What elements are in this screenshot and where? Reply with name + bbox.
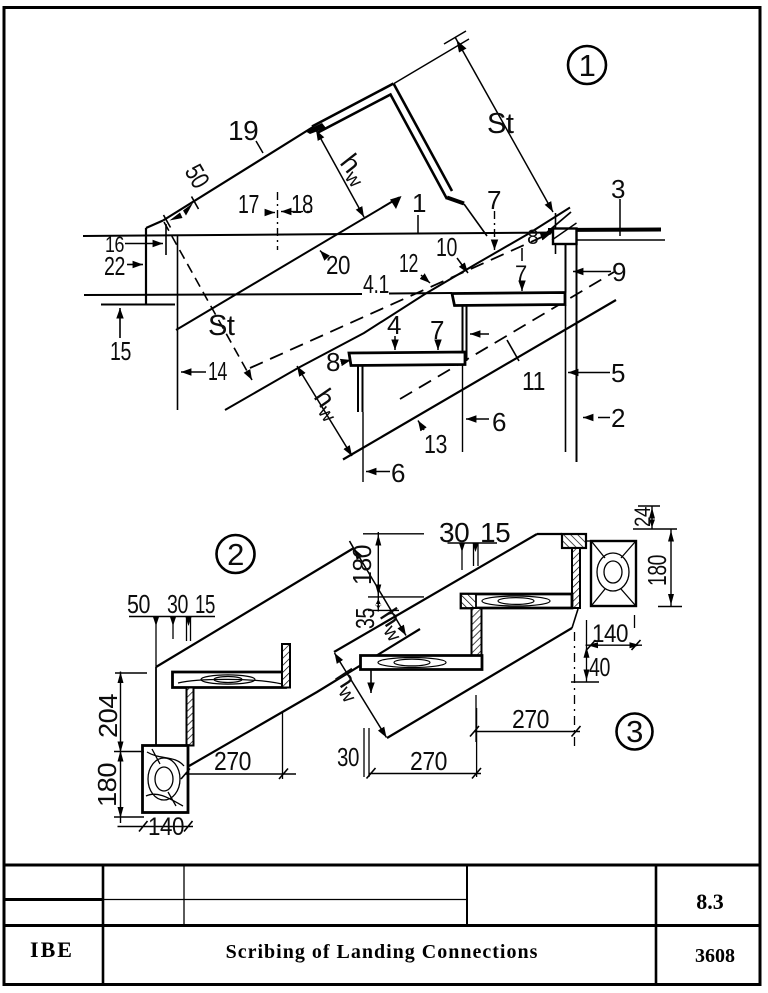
d2 dim tick middle <box>114 751 144 753</box>
svg-text:270: 270 <box>410 746 447 776</box>
dim 15 arrow line <box>119 308 121 338</box>
svg-text:8: 8 <box>527 226 538 249</box>
svg-text:7: 7 <box>515 261 527 286</box>
dim 22 arrow line <box>127 264 143 266</box>
title block vertical x=103 <box>102 865 105 985</box>
svg-text:8: 8 <box>326 347 340 377</box>
svg-text:13: 13 <box>424 429 447 459</box>
d3 stringer lower edge <box>387 628 572 738</box>
leader tick of label 11 <box>507 340 519 361</box>
scribe mark across corner b <box>552 223 577 240</box>
stringer bottom edge line 13 <box>343 300 616 460</box>
svg-text:35: 35 <box>350 608 380 629</box>
d3 dim 24 tick top <box>638 505 660 507</box>
svg-text:30: 30 <box>439 517 469 548</box>
svg-text:180: 180 <box>347 545 377 585</box>
junction wedge at line 19 <box>305 123 326 134</box>
d3 dim 40 vertical <box>586 653 588 682</box>
line 19 thin extension past apex <box>394 39 469 84</box>
d2 dim tick bottom <box>114 816 144 818</box>
dashed scribe width line St left <box>164 222 252 380</box>
scribe mark across corner a <box>545 212 571 234</box>
dashed pitch line 12 <box>250 237 543 369</box>
d3 trimmer board hatched <box>572 548 580 608</box>
nosing block at landing corner <box>553 229 577 245</box>
d3 offset extension b double <box>473 543 475 566</box>
d2 stringer lower edge <box>189 629 420 766</box>
leader of label 9 <box>573 271 611 273</box>
d3 dim 270 lower line <box>369 773 481 775</box>
svg-text:hw: hw <box>331 148 376 192</box>
svg-text:10: 10 <box>436 232 457 262</box>
d3 dim 30 left extension double <box>363 728 365 777</box>
d3 dim 140 left extension <box>586 620 588 653</box>
upper riser extension line for dim 6 <box>462 361 464 452</box>
svg-text:2: 2 <box>611 403 625 433</box>
svg-text:3: 3 <box>626 714 643 749</box>
title block vertical x=184 <box>183 865 185 926</box>
svg-text:14: 14 <box>208 356 227 386</box>
d3 landing floor top line <box>537 533 562 535</box>
d3 dim 270 upper ticks <box>470 726 479 737</box>
upper tread outline <box>452 293 565 306</box>
hw dimension line top <box>316 130 364 217</box>
d2 hw dimension line <box>355 549 407 636</box>
svg-text:8.3: 8.3 <box>696 889 724 914</box>
tick at top of St right line <box>444 31 466 44</box>
svg-text:Scribing of Landing Connection: Scribing of Landing Connections <box>226 941 539 963</box>
svg-text:11: 11 <box>522 366 545 396</box>
svg-text:22: 22 <box>104 251 125 281</box>
landing underside line 4.1 left part <box>84 294 362 295</box>
svg-text:3: 3 <box>611 174 625 204</box>
d3 hw dimension line <box>335 653 387 738</box>
d3 dashed plumb extension right <box>574 632 576 750</box>
d3 dim tick 35 mid <box>368 596 424 598</box>
d3 connector floor to block <box>586 540 591 542</box>
d3 beam block <box>591 541 636 606</box>
dash-dot line for dims 17 18 <box>277 192 279 250</box>
view circle 1 <box>568 46 606 84</box>
svg-text:50: 50 <box>127 589 150 619</box>
d2 stringer top edge <box>156 549 353 668</box>
arrow 18 <box>281 211 290 213</box>
d2 view circle 2 <box>217 535 255 573</box>
d2 offset extension b double <box>186 617 188 641</box>
d2 dim 140 line <box>118 826 194 828</box>
d3 lower edge end connector <box>572 609 578 628</box>
d2 dim 270 line <box>186 773 297 775</box>
d2 dim tick top <box>115 672 147 674</box>
d3 upper tread grain <box>498 598 534 605</box>
d2 corner extension up to offsets <box>155 622 157 667</box>
d2 tread grain line <box>178 679 282 684</box>
title block vertical x=656 <box>655 866 658 985</box>
d3 dim 270 lower ticks <box>367 768 376 779</box>
d2 block growth rings <box>155 767 173 791</box>
tick 19 leader <box>256 141 263 153</box>
title block lower rule <box>4 924 760 927</box>
d3 dim arrows on column <box>375 535 381 610</box>
d2 tread knot rings <box>214 677 242 683</box>
svg-text:20: 20 <box>326 250 350 280</box>
d3 lower 270 mid extension <box>476 708 478 777</box>
d3 dim 24 vertical <box>651 506 653 529</box>
d3 dim 180 right vertical <box>670 529 672 607</box>
hw dimension line bottom <box>297 366 352 456</box>
dim 6 left arrow <box>366 471 390 473</box>
d2 offset arrows <box>153 617 192 626</box>
upper riser face double line <box>462 306 464 362</box>
svg-text:5: 5 <box>611 358 625 388</box>
svg-text:4: 4 <box>387 310 401 340</box>
svg-text:30: 30 <box>167 589 188 619</box>
dashed line 11 <box>400 272 614 399</box>
leader of label 13 <box>418 421 424 431</box>
stringer top edge line 19 <box>163 127 313 221</box>
d3 lower tread grain <box>394 659 430 666</box>
svg-text:140: 140 <box>592 620 628 648</box>
d2 corner plumb line <box>155 667 157 746</box>
dim 7b arrow to tread <box>521 283 523 291</box>
d3 block corner marks <box>592 542 635 605</box>
svg-text:St: St <box>208 310 235 342</box>
svg-text:3608: 3608 <box>695 945 735 967</box>
svg-text:1: 1 <box>579 48 596 83</box>
svg-text:15: 15 <box>195 589 215 619</box>
trimmer face line 2 vertical <box>576 244 578 462</box>
arrowhead for dim 50 lower <box>170 213 183 221</box>
leader of label 10 <box>457 258 468 273</box>
scribed cut tail to landing line <box>464 204 487 236</box>
arrowhead for dim 50 upper <box>183 203 193 216</box>
floor board underside line <box>577 239 665 241</box>
svg-text:180: 180 <box>92 763 122 807</box>
svg-text:19: 19 <box>228 115 258 146</box>
d2 beam block <box>143 746 189 813</box>
dim 6 right arrow <box>466 418 489 420</box>
leader tick of label 1 <box>417 215 419 233</box>
lower tread outline <box>349 352 465 366</box>
d2 upstand extension line down <box>282 712 284 779</box>
stringer top chamfer <box>146 221 163 229</box>
landing underside line 4.1 right part <box>389 292 452 295</box>
svg-text:15: 15 <box>110 336 131 366</box>
svg-text:15: 15 <box>480 517 510 548</box>
d3 block rings <box>604 561 622 583</box>
svg-text:40: 40 <box>589 652 610 682</box>
d3 upper riser hatched <box>472 608 482 656</box>
svg-text:7: 7 <box>487 185 501 215</box>
d2 tread outline <box>173 672 286 688</box>
svg-text:2: 2 <box>227 537 244 572</box>
stringer plumb cut vertical <box>145 228 147 304</box>
leader of label 5 <box>568 372 610 374</box>
arrow 17 <box>266 212 275 214</box>
dim 7c horizontal arrow to riser <box>470 333 489 335</box>
d3 dim column 180 35 vertical <box>377 532 379 612</box>
svg-text:1: 1 <box>412 188 426 218</box>
svg-text:12: 12 <box>399 248 418 278</box>
dash-dot line 18 tail <box>290 211 312 213</box>
d3 dim 140 arrowheads <box>588 642 641 648</box>
trimmer face line 5 vertical <box>565 305 567 452</box>
svg-text:204: 204 <box>93 694 123 738</box>
svg-text:30: 30 <box>337 742 359 772</box>
stringer lower edge line 20 <box>176 198 399 331</box>
reference vertical line 14 <box>177 236 179 410</box>
svg-text:6: 6 <box>391 458 405 488</box>
d3 dim 140 right extension <box>634 615 636 628</box>
d3 dim 140 line <box>586 644 643 646</box>
scribed cut foot blob <box>447 198 464 204</box>
title block top rule <box>4 864 760 867</box>
title block vertical x=467 <box>466 865 468 926</box>
svg-text:St: St <box>487 108 514 140</box>
d3 offsets 30 15 underline <box>448 542 498 544</box>
leader arrow of label 8 right <box>541 234 551 238</box>
svg-text:IBE: IBE <box>30 937 74 962</box>
arrowhead upper on St right line <box>457 40 467 53</box>
dim 7a dash-dot vertical <box>494 211 496 250</box>
nosing line 10 <box>225 208 570 411</box>
d3 upper tread outline <box>461 594 572 608</box>
scribed cut outer line left leg <box>312 84 394 127</box>
leader arrow of label 8 left <box>343 360 351 362</box>
svg-text:6: 6 <box>492 407 506 437</box>
tick on line 19 for dim 50 upper <box>192 197 199 210</box>
d2 offset extension a <box>172 617 174 639</box>
dim 16 arrow line <box>125 243 163 245</box>
leader of label 12 <box>421 275 430 283</box>
d2 dim 270 ticks <box>181 769 190 780</box>
d2 dim 140 ticks <box>139 821 148 832</box>
svg-text:140: 140 <box>148 813 184 841</box>
scribed cut inner line right leg <box>318 95 447 200</box>
tick on line 19 for dim 50 near corner <box>164 215 171 228</box>
lower riser face double line <box>357 366 359 413</box>
lower riser extension line for dim 6 <box>362 412 364 482</box>
title block mid rule left thick <box>4 898 103 901</box>
d3 lower tread outline <box>361 656 483 670</box>
svg-text:50: 50 <box>179 159 216 193</box>
svg-text:4.1: 4.1 <box>363 269 389 299</box>
d3 view circle 3 <box>617 714 653 750</box>
dim 14 arrow line <box>181 371 206 373</box>
d3 stringer top edge <box>334 534 537 652</box>
d2 offsets 50 30 15 underline <box>129 616 215 618</box>
d3 dim 40 arrows <box>584 647 590 681</box>
d3 riser extension line down <box>475 695 477 742</box>
d3 dim 180 right tick bottom <box>658 606 682 608</box>
d3 floor board cut end hatched <box>562 534 586 548</box>
arrowhead at top of line 20 <box>390 196 402 209</box>
leader arrow of label 20 <box>320 251 327 259</box>
d3 right dim arrows <box>649 508 674 606</box>
d3 offset arrows <box>459 543 479 552</box>
d2 upstand board hatched <box>282 644 290 688</box>
d3 dim tick 180 top <box>363 533 424 535</box>
trimmer bottom short line <box>101 304 175 306</box>
title block mid rule thin <box>103 899 467 901</box>
svg-text:180: 180 <box>642 555 672 586</box>
d2 dim arrows on column <box>118 672 124 818</box>
St dimension line right <box>455 37 553 212</box>
d3 offset extension a <box>461 543 463 570</box>
floor board thick line 3 <box>548 228 661 233</box>
dim 7b upper tick <box>521 248 523 261</box>
scribed cut outer line right leg <box>394 84 453 192</box>
svg-text:270: 270 <box>512 704 549 734</box>
svg-text:17: 17 <box>238 189 259 219</box>
d2 dim column line 204 180 <box>120 672 122 824</box>
dim 7c arrow to tread <box>437 341 439 350</box>
tick for dim 16 <box>165 224 167 255</box>
dim 4 arrow to tread <box>394 336 396 350</box>
svg-text:7: 7 <box>430 315 444 345</box>
d3 lower tread left drop line <box>370 670 372 694</box>
d3 dim tick 35 bottom <box>368 609 399 611</box>
d3 dim 180 right tick top <box>633 528 677 530</box>
svg-text:270: 270 <box>214 746 251 776</box>
trimmer face line 9 inner <box>565 244 567 293</box>
landing top line H1 <box>83 233 556 237</box>
svg-text:9: 9 <box>612 257 626 287</box>
d2 riser board hatched <box>187 688 194 746</box>
d3 dim 40 tick <box>571 681 599 683</box>
svg-text:18: 18 <box>291 189 313 219</box>
d2 tick at top end of stringer edge <box>350 541 359 556</box>
d3 dim 140 ticks <box>587 640 596 650</box>
svg-text:24: 24 <box>630 507 655 527</box>
d3 dim 270 upper line <box>475 731 581 733</box>
d3 upper tread cut end hatched <box>461 594 476 608</box>
tick vertical at St right lower end <box>555 213 557 254</box>
leader tick of label 3 <box>619 199 621 236</box>
leader of label 2 <box>583 417 610 419</box>
